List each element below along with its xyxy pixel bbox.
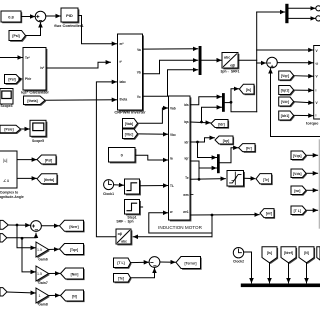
svg-text:iabc: iabc [120, 80, 127, 84]
svg-text:[Fr]: [Fr] [246, 147, 252, 151]
from tag [PsI] A [9, 31, 27, 42]
goto tag [Iqr] [215, 136, 234, 145]
svg-text:1: 1 [39, 294, 41, 298]
demux bar top right [285, 4, 288, 23]
CRPWM inverter block [114, 34, 146, 114]
mux horizontal bar bottom right [241, 284, 320, 288]
goto tag [Nerr] [60, 220, 85, 232]
mux C bar [217, 154, 220, 173]
sum S1 (flux error) [35, 11, 46, 22]
svg-text:Magnitude-Angle: Magnitude-Angle [0, 195, 24, 199]
wire S2 to goto tag [42, 225, 59, 227]
wire Gain6 to goto [49, 248, 59, 250]
block SRF-3ph alphabeta/abc (flipped) [116, 219, 134, 245]
wire to SRF-3ph block input (points left) [133, 236, 212, 238]
wire [Vab] to motor Vab [138, 108, 168, 123]
sum S2 [31, 221, 42, 232]
junction dot Te [198, 178, 201, 181]
wire down tag3 to bar [306, 263, 308, 283]
goto tag [Is] [239, 84, 255, 95]
out port circle 1 [316, 6, 320, 11]
wire Gain8 to goto [49, 294, 60, 296]
svg-text:[Idr]: [Idr] [218, 123, 225, 127]
from tag [PsI] B [5, 75, 22, 85]
svg-text:Gain7: Gain7 [38, 281, 48, 285]
svg-text:SRF→ 3ph: SRF→ 3ph [116, 219, 133, 223]
wire Vb to mux A [143, 60, 198, 73]
svg-text:[wr]: [wr] [266, 212, 272, 216]
svg-text:abc: abc [224, 55, 230, 59]
wire iqr to mux C input 2 [190, 161, 216, 168]
wire idr to goto [Iqr] [190, 138, 214, 142]
wire tag2 right and up into S2 bottom [7, 233, 36, 238]
svg-text:[PsI]: [PsI] [12, 34, 19, 38]
goto tag [wr] [260, 209, 275, 219]
svg-text:Clock2: Clock2 [233, 260, 244, 264]
svg-text:ids: ids [184, 103, 189, 107]
svg-text:1.5: 1.5 [37, 248, 42, 252]
svg-text:[Iqr1]: [Iqr1] [281, 89, 289, 93]
wire [T L] to right edge [306, 209, 318, 211]
from tag down 3 [299, 247, 315, 264]
svg-text:INDUCTION MOTOR: INDUCTION MOTOR [158, 225, 202, 230]
wire tag1 to sum S2 [8, 224, 30, 226]
svg-text:[Vab]: [Vab] [125, 122, 133, 126]
wire mux C out to goto [Fr] [220, 148, 238, 163]
from tag [Vqr] [279, 71, 295, 81]
svg-text:Vc: Vc [137, 95, 141, 99]
wire demux out2 to port circle [289, 17, 316, 19]
goto tag [Vbc] [123, 129, 139, 140]
svg-text:CRPWM inverter: CRPWM inverter [114, 109, 146, 114]
svg-text:[PsI]: [PsI] [8, 77, 15, 81]
wire mux A to 3ph-SRF1 [202, 59, 222, 61]
svg-text:[wr]: [wr] [294, 189, 300, 193]
wire iabc feedback (long vertical) [96, 82, 116, 237]
wire Te* input [0, 57, 22, 59]
from tag [Idr1] [279, 111, 295, 121]
from tag cut 3 (left edge) [0, 288, 7, 296]
wire [T L] to sum S4 [131, 261, 149, 263]
svg-text:iqs: iqs [184, 120, 189, 124]
wire saturation to goto [Te] [244, 177, 256, 179]
wire wr1 to goto [wr] [190, 214, 259, 216]
INDUCTION MOTOR block [169, 96, 194, 221]
wire V1 to torque block input 1 [257, 49, 313, 51]
from tag feeding Scope5 (cut) [0, 125, 22, 134]
sum S4 [149, 257, 160, 268]
clock Clock2 [233, 248, 244, 264]
wire Va to mux A [143, 48, 198, 50]
wire idr branch to mux C input 1 [198, 142, 217, 158]
stub wire Step1 output [140, 206, 143, 208]
constant block 0.8 [1, 11, 22, 23]
saturation block [227, 171, 245, 188]
from tag cut 2 (left edge) [0, 234, 7, 242]
from tag down 1 [262, 247, 278, 264]
wire wr1 loop down around label [211, 215, 213, 237]
wire iqs branch to mux B [202, 107, 222, 122]
wire mux B out with junction [225, 102, 231, 104]
wire down tag1 to bar [269, 263, 271, 283]
svg-text:ω: ω [316, 61, 319, 65]
wire iqs to goto [Idr] [190, 121, 210, 124]
svg-text:Clock1: Clock1 [103, 192, 114, 196]
mux B bar [222, 93, 225, 112]
wire branch down to Gain6 [17, 225, 35, 248]
gain Gain8 [36, 288, 50, 307]
step block Step1 [125, 200, 141, 220]
svg-text:Phir: Phir [25, 77, 32, 81]
wire to Scope5 [21, 128, 30, 130]
goto tag after Gain6 [60, 244, 85, 256]
svg-text:torque: torque [306, 121, 319, 126]
iqs* Calculator block [21, 48, 49, 95]
goto tag [Idr] [211, 120, 229, 129]
wire Clock2 down to mux bar [244, 252, 252, 283]
svg-text:αβ: αβ [230, 63, 235, 67]
wire speed feedback up into S3 [271, 69, 320, 137]
PID block flux Controller1 [54, 8, 84, 28]
torque calculator block (cut at right edge) [306, 46, 320, 126]
svg-text:∠u: ∠u [3, 178, 10, 183]
wire [Idr1] to torque input 6 [294, 114, 313, 116]
svg-text:[Tqe]: [Tqe] [70, 248, 78, 252]
junction dot tag2 branch [21, 237, 24, 240]
svg-text:[Nref]: [Nref] [284, 251, 293, 255]
svg-text:Va: Va [137, 48, 141, 52]
wire Gain7 to goto [49, 272, 60, 274]
svg-text:[Vqr]: [Vqr] [281, 74, 289, 78]
svg-text:[theta]: [theta] [44, 178, 54, 182]
wire S3 to torque block input 2 [277, 62, 313, 64]
svg-text:[N]: [N] [304, 251, 309, 255]
wire sum S1 to PID [46, 15, 61, 17]
svg-text:[Te]: [Te] [263, 178, 269, 182]
wire [Te] up into S4 [131, 268, 155, 278]
lookup/step block after Clock1 [125, 179, 141, 195]
wire PID to CRPWM m* input [78, 16, 116, 44]
svg-text:[Vdr]: [Vdr] [281, 100, 289, 104]
svg-text:[T L]: [T L] [294, 209, 301, 213]
svg-text:0.8: 0.8 [8, 15, 14, 20]
wire [Vbc] to motor Vbc [138, 133, 168, 135]
wire [Vds] to right edge [306, 172, 318, 174]
from tag [Vqs] [291, 151, 307, 161]
wire down tag2 to bar [288, 263, 290, 283]
wire down to V1 bus [231, 102, 257, 111]
junction dot mux B out [230, 101, 233, 104]
constant block 0 [109, 148, 137, 164]
wire V1 to demux [257, 11, 285, 13]
svg-text:wm: wm [182, 193, 188, 197]
svg-text:Te: Te [185, 176, 189, 180]
wire V1 vertical bus [256, 12, 258, 112]
gain Gain7 [36, 266, 50, 285]
wire V1 to sum S3 [257, 62, 266, 64]
wire [Vdr] to torque input 5 [294, 102, 313, 103]
svg-text:Vab: Vab [170, 107, 176, 111]
goto tag [Te] [256, 174, 273, 186]
wire [PsI] to sum S1 bottom [26, 23, 41, 36]
goto tag [Fr] [239, 144, 257, 153]
svg-text:[Nerr]: [Nerr] [69, 225, 78, 229]
mux A bar [199, 46, 202, 75]
wire [PsI] B to Phir input [18, 77, 22, 81]
svg-text:Gain6: Gain6 [38, 257, 48, 261]
svg-text:i: i [316, 114, 317, 118]
svg-text:theta: theta [120, 98, 128, 102]
from tag down 4 (cut) [317, 247, 320, 260]
goto tag [Terror] [176, 257, 202, 270]
goto tag after Gain7 [61, 268, 85, 280]
svg-text:Vbc: Vbc [170, 133, 176, 137]
svg-text:[Is]: [Is] [246, 88, 251, 92]
block Complex to Magnitude-Angle (cut at left) [0, 151, 24, 199]
wire [Vqr] to torque input 3 [294, 75, 313, 78]
svg-text:w: w [169, 210, 173, 214]
svg-text:[Nm]: [Nm] [71, 273, 79, 277]
wire demux out1 to port circle [289, 7, 316, 9]
svg-text:Vb: Vb [137, 71, 141, 75]
from tag [Te] lower [114, 274, 132, 284]
svg-text:[N]: [N] [72, 295, 77, 299]
wire angle-u to goto [theta] [17, 177, 36, 179]
svg-text:[Terror]: [Terror] [185, 261, 197, 265]
wire tag3 to Gain8 [7, 292, 35, 293]
goto tag [PsI] out [37, 155, 57, 165]
from tag [wr] right [291, 186, 307, 196]
wire Vc to mux A [143, 70, 198, 97]
svg-text:[Te]: [Te] [118, 277, 124, 281]
from tag [Vds] [291, 169, 307, 179]
svg-text:Gain8: Gain8 [38, 303, 48, 307]
wire 0.8 to sum [22, 16, 35, 18]
svg-text:Scope4: Scope4 [0, 104, 12, 108]
from tag [T L] right [291, 206, 307, 216]
svg-text:[PsI]: [PsI] [45, 159, 52, 163]
wire |u| to goto [PsI] [17, 159, 36, 161]
wire S4 to goto [Terror] [160, 261, 175, 263]
svg-text:[T L]: [T L] [117, 261, 124, 265]
wire crossing stub iqr-Te [198, 168, 200, 179]
svg-text:abc: abc [121, 239, 127, 243]
wire ids to mux B [190, 97, 221, 105]
svg-text:[Is]: [Is] [267, 251, 272, 255]
scope Scope4 (cut at left edge) [0, 89, 13, 109]
wire loop bottom and up to motor w input [149, 213, 212, 233]
from tag [theta] [24, 96, 47, 106]
svg-text:[PsIe]: [PsIe] [4, 128, 13, 132]
wire SRF1 out to V1 junction [238, 59, 256, 61]
wire lookup block to motor TL [140, 185, 168, 187]
wire 0 to motor ia [135, 155, 168, 160]
junction dot iqs [200, 121, 203, 124]
svg-text:Te*: Te* [25, 56, 30, 60]
svg-text:3ph→ SRF1: 3ph→ SRF1 [220, 69, 239, 73]
out port circle 2 [316, 16, 320, 21]
from tag cut 1 (left edge) [0, 220, 8, 229]
svg-text:[Iqr]: [Iqr] [223, 139, 230, 143]
svg-text:wr1: wr1 [182, 210, 189, 214]
svg-text:TL: TL [170, 184, 174, 188]
svg-text:1.5: 1.5 [37, 272, 42, 276]
svg-text:flux Controller1: flux Controller1 [54, 23, 84, 28]
svg-text:[theta]: [theta] [27, 99, 37, 103]
block 3ph-SRF1 abc/alphabeta [220, 53, 239, 74]
junction dot wr1 loop [211, 214, 214, 217]
svg-text:ia: ia [170, 157, 173, 161]
junction dot tag1 branch [16, 224, 19, 227]
svg-text:Scope5: Scope5 [32, 139, 44, 143]
grey edge of cut block right side [318, 140, 320, 228]
wire branch down to Gain7 [22, 238, 35, 272]
svg-text:iqs* Calculator: iqs* Calculator [21, 90, 49, 95]
from tag [T L] [114, 258, 132, 269]
svg-text:[Vqs]: [Vqs] [293, 154, 301, 158]
wire [Vqs] to right edge [306, 154, 318, 156]
from tag down 2 [281, 247, 297, 264]
goto tag [Vab] [123, 119, 139, 130]
gain Gain6 [36, 242, 50, 261]
svg-text:i: i [316, 89, 317, 93]
scope Scope5 [30, 120, 47, 143]
svg-text:[Vds]: [Vds] [293, 172, 301, 176]
goto tag after Gain8 [61, 290, 85, 302]
wire up to goto [Is] [231, 89, 239, 103]
wire theta input [45, 99, 117, 101]
wire Te to saturation [190, 178, 225, 181]
from tag [Vdr] [279, 97, 295, 107]
clock Clock1 [103, 180, 114, 196]
svg-text:[Idr1]: [Idr1] [281, 114, 289, 118]
junction dot idr [196, 141, 199, 144]
wire [wr] to right edge [306, 189, 318, 191]
svg-text:Complex to: Complex to [0, 190, 18, 194]
sum S3 [267, 57, 278, 68]
wire is* output to t* input [46, 62, 110, 68]
svg-text:PID: PID [66, 13, 73, 18]
goto tag [theta] out [37, 174, 58, 185]
wire Clock1 to lookup block [114, 184, 124, 186]
wire [Iqr1] to torque input 4 [294, 89, 313, 91]
svg-text:[Vbc]: [Vbc] [125, 132, 133, 136]
svg-text:|u|: |u| [3, 158, 8, 163]
from tag [Iqr1] [279, 86, 295, 96]
